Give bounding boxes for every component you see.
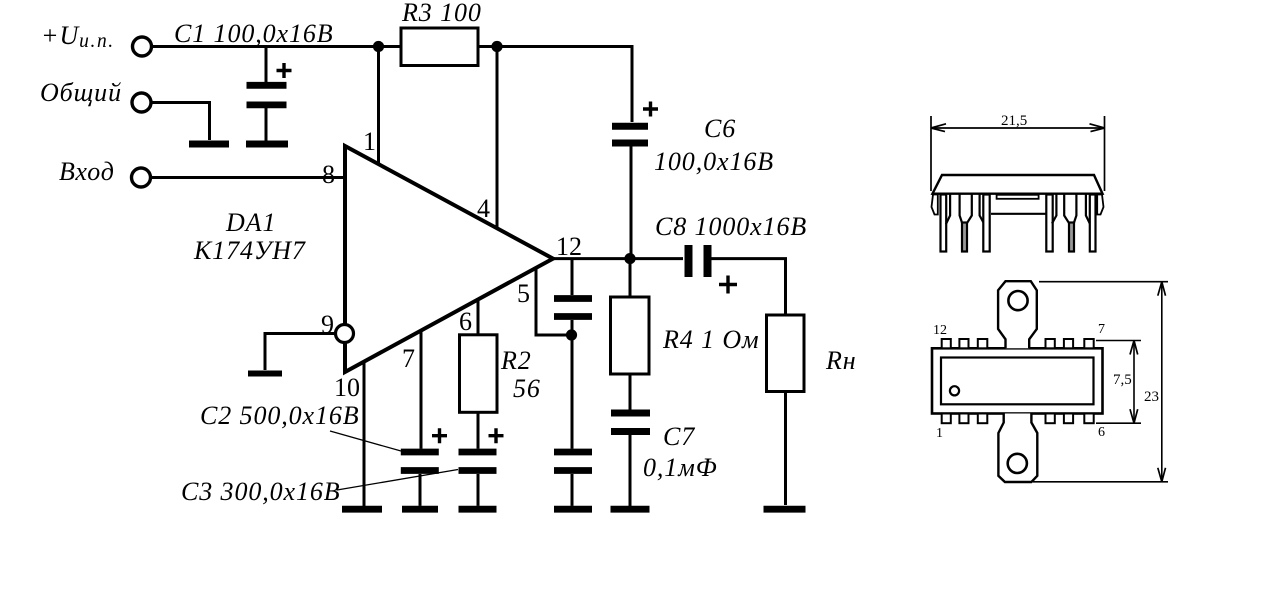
- wire node to R4: [629, 259, 632, 298]
- svg-text:К174УН7: К174УН7: [193, 236, 306, 265]
- wire pin 5: [536, 268, 567, 336]
- svg-text:7,5: 7,5: [1113, 372, 1132, 388]
- capacitor C8: [689, 245, 738, 294]
- capacitor C7: [611, 413, 650, 506]
- resistor Rн: [767, 315, 805, 392]
- terminal Общий: [132, 93, 151, 112]
- ground C5: [554, 506, 592, 513]
- node output junction: [624, 253, 635, 264]
- wire pin 1: [377, 47, 380, 166]
- ground C2: [402, 506, 438, 513]
- package top view lower tab: [998, 414, 1037, 483]
- upper tab hole: [1008, 291, 1027, 310]
- ground C7: [611, 506, 650, 513]
- svg-text:R2: R2: [500, 346, 532, 375]
- svg-text:С6: С6: [704, 114, 736, 143]
- package side body right flap: [1097, 195, 1103, 215]
- resistor R3: [401, 28, 478, 66]
- ground C3: [459, 506, 497, 513]
- svg-text:56: 56: [513, 374, 541, 403]
- capacitor C5: [554, 335, 592, 506]
- wire +Uип to R3: [152, 45, 401, 48]
- svg-text:12: 12: [933, 323, 947, 338]
- node junction A: [373, 41, 384, 52]
- package side body left flap: [932, 195, 938, 215]
- dimension 23: [1033, 282, 1168, 482]
- package top view bottom pins: [942, 414, 1094, 424]
- svg-text:1: 1: [363, 127, 376, 156]
- svg-text:DA1: DA1: [225, 208, 276, 237]
- ground Общий: [189, 141, 229, 148]
- svg-text:100,0х16В: 100,0х16В: [654, 147, 774, 176]
- svg-text:С2 500,0х16В: С2 500,0х16В: [200, 401, 360, 430]
- terminal +Uип: [133, 37, 152, 56]
- callout C3: [337, 470, 458, 491]
- wire pin 9 to ground: [265, 334, 337, 371]
- package side pins left group: [941, 195, 990, 252]
- node pin 5 junction: [566, 329, 577, 340]
- resistor R2: [460, 335, 498, 413]
- wire Общий to ground: [152, 103, 210, 141]
- ground C1: [246, 141, 288, 148]
- wire R3 right to C6: [478, 47, 632, 123]
- wire R4 to C7: [629, 374, 632, 410]
- svg-text:С3 300,0х16В: С3 300,0х16В: [181, 477, 341, 506]
- wire pin 7: [420, 331, 423, 449]
- dimension 7,5: [1096, 341, 1141, 424]
- package top view body: [932, 348, 1103, 413]
- svg-text:4: 4: [477, 194, 490, 223]
- package side slot: [997, 195, 1039, 199]
- package top view top pins: [942, 339, 1094, 348]
- wire pin 4: [496, 47, 499, 230]
- pin 9 bubble: [336, 325, 354, 343]
- svg-text:R3 100: R3 100: [401, 0, 482, 27]
- svg-text:6: 6: [459, 307, 472, 336]
- ground pin 9: [248, 371, 282, 377]
- package top view pin1 mark: [950, 386, 959, 395]
- terminal Вход: [132, 168, 151, 187]
- svg-text:1: 1: [936, 426, 943, 441]
- svg-text:Общий: Общий: [40, 78, 122, 107]
- capacitor C1: [247, 47, 292, 142]
- svg-text:21,5: 21,5: [1001, 113, 1027, 129]
- lower tab hole: [1008, 454, 1027, 473]
- resistor R4: [611, 297, 650, 374]
- svg-text:0,1мФ: 0,1мФ: [643, 453, 718, 482]
- wire output: [553, 257, 683, 260]
- callout C2: [330, 431, 401, 451]
- svg-text:С1 100,0х16В: С1 100,0х16В: [174, 19, 334, 48]
- svg-text:12: 12: [556, 232, 582, 261]
- ground pin 10: [342, 506, 382, 513]
- package side body top face: [933, 175, 1103, 194]
- svg-text:Вход: Вход: [59, 157, 115, 186]
- svg-text:5: 5: [517, 279, 530, 308]
- svg-text:8: 8: [322, 160, 335, 189]
- package top view inner body: [941, 358, 1094, 405]
- svg-text:23: 23: [1144, 389, 1159, 405]
- node junction B: [491, 41, 502, 52]
- svg-text:7: 7: [1098, 322, 1105, 337]
- svg-text:R4 1 Ом: R4 1 Ом: [662, 325, 760, 354]
- capacitor C4: [554, 259, 592, 335]
- svg-text:С7: С7: [663, 422, 695, 451]
- op-amp DA1: [345, 146, 553, 372]
- package side pins right group: [1046, 195, 1095, 252]
- wire Rн to ground: [784, 392, 787, 506]
- capacitor C2: [401, 428, 447, 506]
- svg-text:6: 6: [1098, 425, 1105, 440]
- wire C8 to Rн: [712, 259, 786, 315]
- package side bottom edge middle: [991, 213, 1046, 215]
- svg-text:Rн: Rн: [825, 346, 857, 375]
- capacitor C3: [459, 428, 504, 506]
- wire Вход to pin 8: [151, 176, 345, 179]
- ground Rн: [764, 506, 806, 513]
- svg-text:10: 10: [334, 373, 360, 402]
- wire pin 6: [477, 300, 480, 335]
- wire pin 10: [363, 362, 366, 506]
- capacitor C6: [612, 102, 658, 257]
- package top view upper tab: [998, 281, 1037, 348]
- dimension 21,5: [931, 116, 1105, 191]
- svg-text:7: 7: [402, 344, 415, 373]
- svg-text:С8 1000х16В: С8 1000х16В: [655, 212, 807, 241]
- wire R2 to C3: [477, 412, 480, 448]
